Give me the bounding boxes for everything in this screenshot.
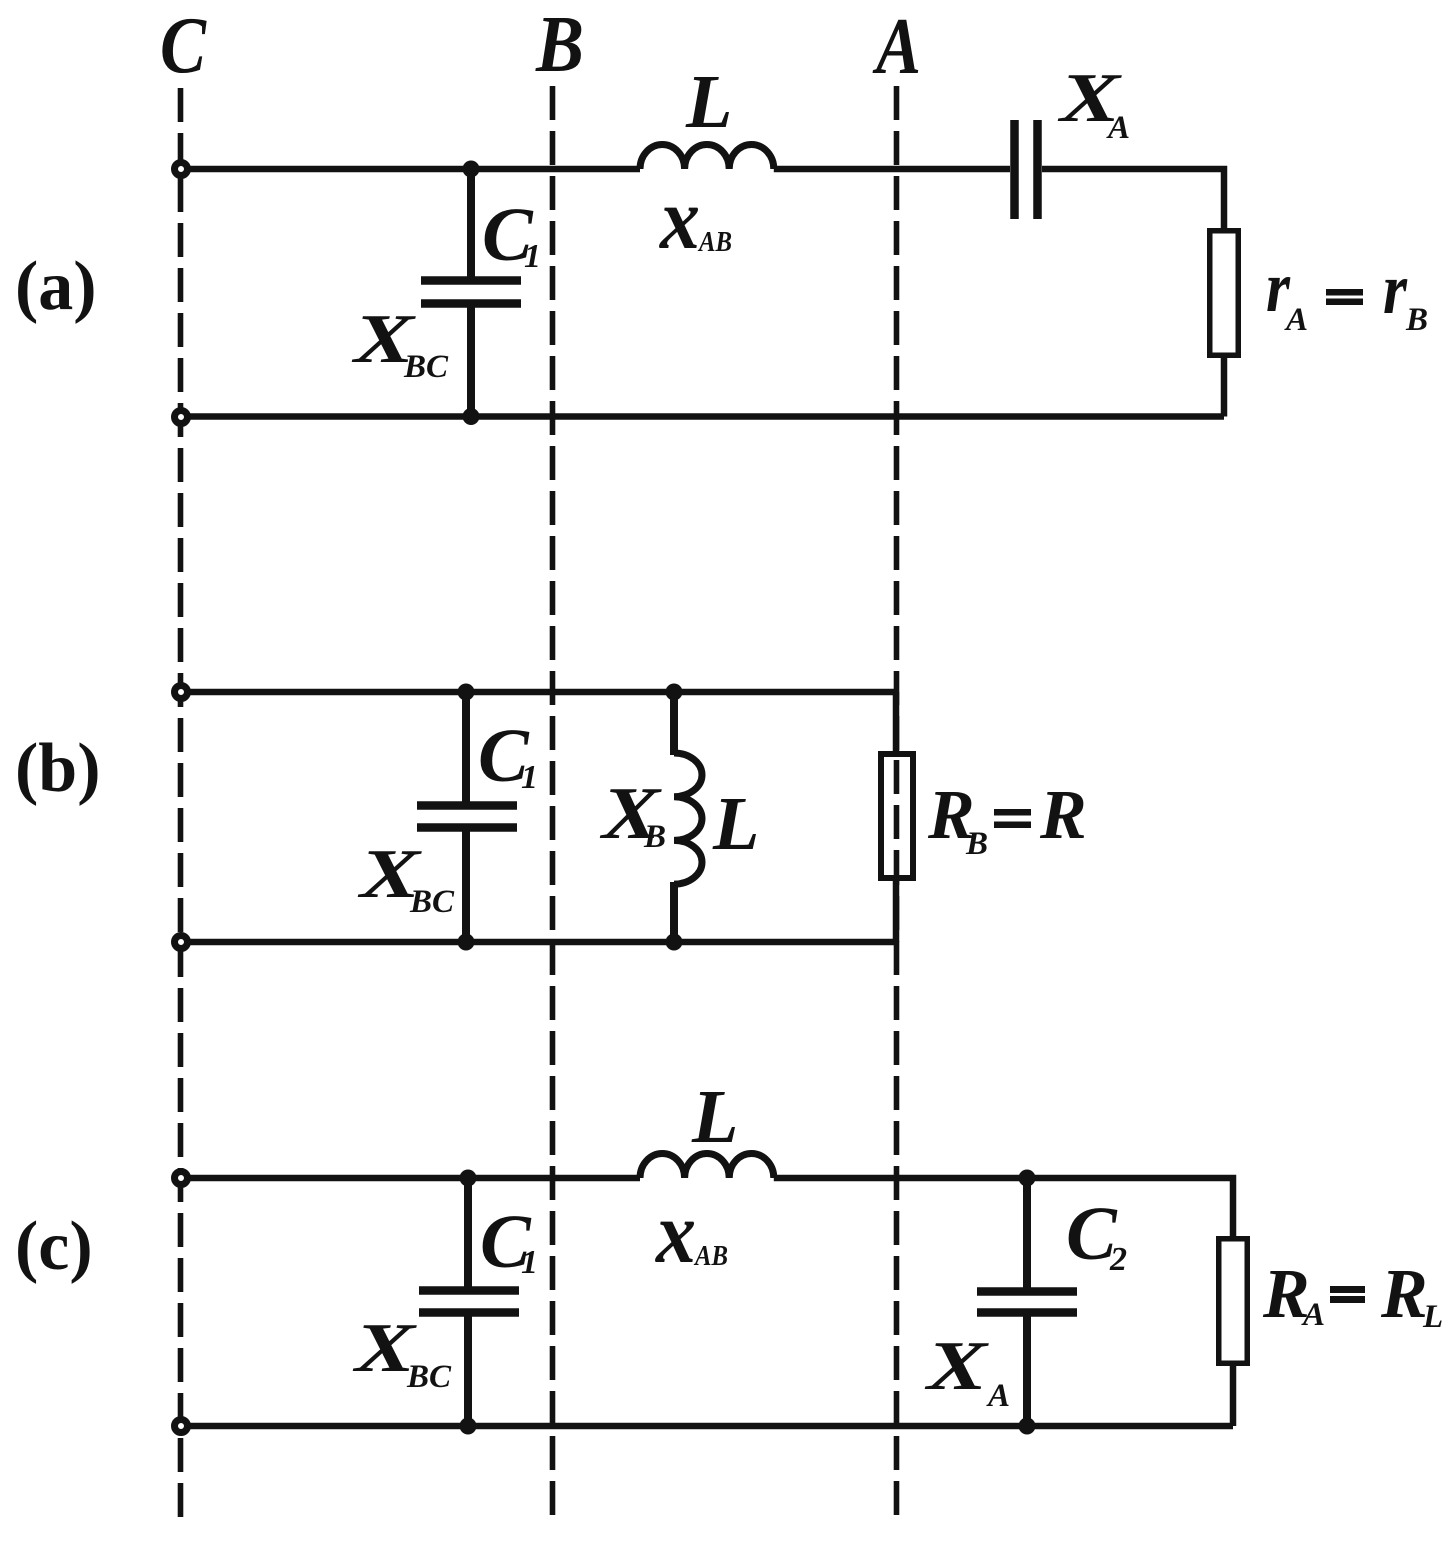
- svg-text:B: B: [965, 826, 988, 862]
- node B bus (dashed line B): [550, 86, 556, 1519]
- wire: (a) resistor to bottom: [1221, 358, 1228, 417]
- terminal (b) top: [175, 686, 188, 699]
- wire: (b) bottom: [186, 939, 896, 946]
- capacitor C1 (c) stem top: [464, 1178, 472, 1287]
- resistor rA (a): [1210, 231, 1239, 356]
- svg-text:BC: BC: [406, 1359, 452, 1395]
- wire: (b) resistor bottom leg: [893, 881, 900, 942]
- inductor L (b) coils: [674, 753, 702, 884]
- svg-text:1: 1: [524, 238, 541, 275]
- svg-text:AB: AB: [697, 227, 732, 258]
- inductor L (a): [640, 145, 774, 170]
- capacitor C2 (c) stem bottom: [1023, 1316, 1031, 1426]
- svg-text:(c): (c): [15, 1208, 93, 1285]
- node C bus (dashed line C): [178, 88, 184, 1519]
- junction dots C1 (b): [458, 684, 475, 701]
- svg-text:B: B: [1405, 302, 1428, 338]
- capacitor C1 (b) plates: [417, 801, 517, 810]
- wire: (c) bottom: [186, 1423, 1233, 1430]
- svg-text:1: 1: [521, 1244, 538, 1281]
- wire: (b) top: [186, 689, 896, 696]
- svg-text:B: B: [535, 1, 584, 89]
- svg-text:x: x: [654, 1185, 696, 1282]
- svg-text:1: 1: [521, 759, 538, 796]
- junction dot (a) bottom: [463, 408, 480, 425]
- inductor L (b) stem bottom: [670, 882, 678, 942]
- capacitor C1 (a) plates: [421, 276, 521, 285]
- junction dots C1 (c): [460, 1170, 477, 1187]
- terminal (a) top: [175, 163, 188, 176]
- junction dots L (b): [666, 684, 683, 701]
- resistor RB (b): [881, 754, 913, 878]
- capacitor C2 (c) stem top: [1023, 1178, 1031, 1288]
- terminal (c) bottom: [175, 1420, 188, 1433]
- svg-text:A: A: [986, 1378, 1010, 1414]
- svg-text:L: L: [691, 1075, 738, 1159]
- svg-text:BC: BC: [403, 349, 449, 385]
- svg-text:C: C: [160, 2, 207, 90]
- svg-text:B: B: [643, 819, 666, 855]
- capacitor C1 (b) stem top: [462, 692, 470, 802]
- capacitor C1 (a) stem bottom: [467, 307, 475, 417]
- capacitor C2 (c) plates: [977, 1287, 1077, 1296]
- svg-text:L: L: [1422, 1299, 1443, 1335]
- wire: (c) resistor to bottom: [1230, 1366, 1237, 1426]
- node A dashes inside resistor (b): [894, 760, 900, 875]
- junction dot (a) top: [463, 161, 480, 178]
- svg-text:2: 2: [1109, 1241, 1127, 1278]
- svg-text:x: x: [658, 171, 700, 268]
- junction dots C2 (c): [1019, 1170, 1036, 1187]
- terminal (b) bottom: [175, 936, 188, 949]
- svg-text:R: R: [1380, 1256, 1428, 1333]
- node A bus (dashed line A): [894, 86, 900, 1519]
- capacitor C1 (a) stem top: [467, 169, 475, 277]
- resistor RA (c): [1219, 1239, 1248, 1364]
- wire: (c) top left segment: [186, 1175, 640, 1182]
- terminal (c) top: [175, 1172, 188, 1185]
- capacitor C1 (b) stem bottom: [462, 831, 470, 942]
- wire: (a) top left segment: [186, 166, 640, 173]
- svg-text:r: r: [1383, 249, 1408, 329]
- svg-text:(b): (b): [15, 730, 101, 807]
- svg-text:AB: AB: [693, 1241, 728, 1272]
- svg-text:A: A: [1284, 302, 1308, 338]
- svg-text:R: R: [1039, 777, 1087, 854]
- wire: (a) bottom: [186, 413, 1224, 420]
- capacitor XA plates: [1010, 120, 1019, 219]
- wire: (a) top middle segment: [774, 166, 1010, 173]
- wire: (c) top right segment + right leg: [774, 1178, 1233, 1237]
- inductor L (b) stem top: [670, 692, 678, 755]
- svg-text:BC: BC: [409, 884, 455, 920]
- capacitor C1 (c) stem bottom: [464, 1316, 472, 1426]
- equals sign (b) RB = R: [994, 809, 1031, 816]
- svg-text:(a): (a): [15, 248, 97, 325]
- svg-text:A: A: [1301, 1297, 1325, 1333]
- equals sign (a) rA = rB: [1326, 289, 1363, 296]
- inductor L (c): [640, 1154, 774, 1179]
- terminal (a) bottom: [175, 411, 188, 424]
- equals sign (c) RA = RL: [1330, 1286, 1365, 1293]
- svg-text:X: X: [924, 1328, 990, 1405]
- svg-text:A: A: [1106, 110, 1130, 146]
- capacitor C1 (c) plates: [419, 1286, 519, 1295]
- wire: (a) top right segment + right leg down to resistor: [1042, 169, 1224, 229]
- svg-text:L: L: [712, 782, 759, 866]
- wire: (b) resistor top leg: [893, 692, 900, 752]
- svg-text:A: A: [872, 3, 921, 91]
- svg-text:L: L: [685, 60, 732, 144]
